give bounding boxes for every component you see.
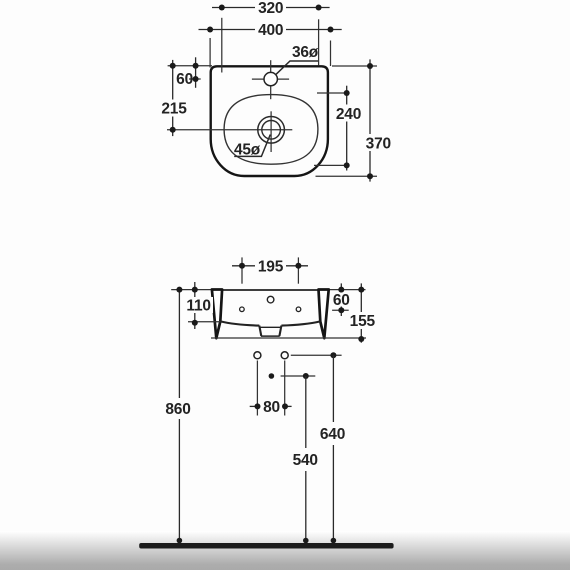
dim 320 extension line left bbox=[221, 18, 223, 73]
dim 215 dot top bbox=[170, 63, 176, 69]
front left fixing hole bbox=[240, 307, 245, 312]
dim 370 line bbox=[369, 59, 371, 181]
dim 400 line bbox=[199, 29, 342, 31]
label 240 bbox=[335, 105, 363, 122]
dim 195 dot left bbox=[239, 263, 245, 269]
mounting hole left bbox=[254, 352, 261, 359]
front interior bowl line left bbox=[220, 321, 259, 325]
dim 400 dot left bbox=[207, 27, 213, 33]
dim 110 line bbox=[194, 282, 196, 329]
svg-text:540: 540 bbox=[293, 452, 318, 469]
dim 860 dot top bbox=[176, 287, 182, 293]
dim 370 dot top bbox=[367, 63, 373, 69]
drain crosshair horizontal / centerline from 215 dim bbox=[167, 129, 292, 131]
dim 240 top tick bbox=[317, 92, 349, 94]
svg-text:370: 370 bbox=[366, 136, 391, 153]
label 370 bbox=[365, 134, 393, 151]
dim 60 front dot top bbox=[338, 287, 344, 293]
drain center dot bbox=[269, 373, 275, 379]
dim 110 bottom tick bbox=[188, 321, 220, 323]
svg-text:640: 640 bbox=[320, 426, 345, 443]
drain inner circle bbox=[262, 121, 281, 140]
top edge extension left (through 215 and 60 dots) bbox=[168, 65, 212, 67]
dim 240 bottom tick bbox=[314, 164, 349, 166]
dim 195 extension left bbox=[241, 257, 243, 283]
dim 155 dot bottom bbox=[358, 336, 364, 342]
dim 240 line bbox=[346, 86, 348, 171]
svg-text:60: 60 bbox=[176, 71, 193, 88]
svg-text:155: 155 bbox=[350, 313, 376, 330]
dim 320 extension line right bbox=[318, 19, 320, 65]
dim 240 dot bottom bbox=[344, 162, 350, 168]
dim 110 dot top bbox=[192, 287, 198, 293]
dim 640 line bbox=[332, 355, 334, 543]
link line drain level to 540 bbox=[281, 375, 316, 377]
dim 640 floor dot bbox=[331, 538, 337, 544]
front faucet hole bbox=[267, 296, 274, 303]
label 400 bbox=[255, 22, 286, 38]
link line mounting holes to 640 bbox=[291, 354, 342, 356]
top edge extension right bbox=[332, 65, 377, 67]
svg-text:80: 80 bbox=[263, 399, 280, 416]
dim 860 floor dot bbox=[177, 538, 183, 544]
dim 80 left tick bbox=[250, 405, 258, 407]
dim 80 dot left bbox=[255, 403, 261, 409]
svg-text:320: 320 bbox=[258, 0, 283, 17]
dim 60 front dot bottom bbox=[338, 307, 344, 313]
dot 640 top bbox=[330, 352, 336, 358]
dim 60 top dot upper bbox=[193, 63, 199, 69]
svg-text:110: 110 bbox=[186, 298, 210, 315]
dim 60 top tick bottom bbox=[189, 78, 201, 80]
dim 400 extension line right bbox=[330, 41, 332, 67]
dim 540 floor dot bbox=[303, 538, 309, 544]
dim 80 dot right bbox=[282, 403, 288, 409]
leader 36o bbox=[276, 61, 319, 75]
dot 540 top bbox=[303, 373, 309, 379]
svg-text:195: 195 bbox=[258, 259, 284, 276]
floor line bbox=[139, 543, 393, 549]
faucet hole crosshair vertical bbox=[270, 60, 272, 99]
dim 370 bottom tick bbox=[316, 175, 378, 177]
front top edge extension right bbox=[329, 289, 366, 291]
svg-text:215: 215 bbox=[161, 101, 187, 118]
front right wall bbox=[319, 290, 329, 339]
faucet hole 36o bbox=[264, 72, 277, 85]
dim 60 front tick bbox=[332, 309, 349, 311]
drain outer circle bbox=[258, 117, 285, 144]
svg-text:860: 860 bbox=[165, 401, 190, 418]
extension mounting left down bbox=[256, 361, 258, 416]
svg-text:240: 240 bbox=[336, 106, 361, 123]
front bottom line bbox=[211, 337, 366, 339]
drain crosshair vertical bbox=[270, 111, 272, 152]
svg-text:45ø: 45ø bbox=[234, 142, 261, 159]
front left wall bbox=[212, 290, 222, 339]
basin outer outline bbox=[211, 66, 328, 176]
dim 195 dot right bbox=[295, 263, 301, 269]
dim 320 line bbox=[212, 7, 330, 9]
dim 240 dot top bbox=[344, 90, 350, 96]
dim 195 extension right bbox=[297, 257, 299, 283]
dim 320 dot left bbox=[219, 5, 225, 11]
svg-text:400: 400 bbox=[258, 22, 283, 39]
label 110 bbox=[185, 297, 213, 313]
faucet hole crosshair horizontal bbox=[252, 78, 289, 80]
dim 215 line bbox=[172, 60, 174, 136]
dim 155 dot top bbox=[358, 287, 364, 293]
label 320 bbox=[255, 0, 286, 16]
leader 45o bbox=[234, 135, 270, 157]
dim 110 dot bottom bbox=[192, 320, 198, 326]
front drain box bbox=[259, 326, 261, 337]
label 195 bbox=[255, 258, 286, 274]
floor shadow gradient bbox=[0, 531, 570, 570]
label 640 bbox=[317, 422, 348, 445]
dim 60 front line bbox=[340, 283, 342, 316]
dim 80 right tick bbox=[285, 405, 292, 407]
dim 860 line bbox=[178, 290, 180, 543]
front right fixing hole bbox=[296, 307, 301, 312]
label 60 front bbox=[333, 293, 350, 307]
front interior bowl line right bbox=[281, 321, 320, 325]
label 155 bbox=[350, 312, 376, 329]
dim 400 dot right bbox=[328, 27, 334, 33]
label 540 bbox=[290, 448, 321, 471]
front top edge bbox=[213, 289, 329, 291]
label 215 bbox=[160, 100, 188, 117]
dim 540 line bbox=[305, 376, 307, 543]
dim 60 top dot lower bbox=[193, 76, 199, 82]
dim 320 dot right bbox=[316, 5, 322, 11]
front top edge extension left bbox=[171, 289, 211, 291]
label 860 bbox=[163, 398, 194, 419]
dim 370 dot bottom bbox=[367, 173, 373, 179]
dim 215 dot bottom bbox=[170, 127, 176, 133]
svg-text:60: 60 bbox=[333, 292, 350, 309]
dim 400 extension line left bbox=[209, 38, 211, 68]
mounting hole right bbox=[281, 352, 288, 359]
svg-text:36ø: 36ø bbox=[292, 44, 319, 61]
dim 60 top line bbox=[195, 57, 197, 88]
dim 155 line bbox=[360, 283, 362, 342]
inner basin rim bbox=[224, 95, 318, 165]
extension mounting right down bbox=[284, 361, 286, 416]
dim 195 line bbox=[232, 265, 308, 267]
